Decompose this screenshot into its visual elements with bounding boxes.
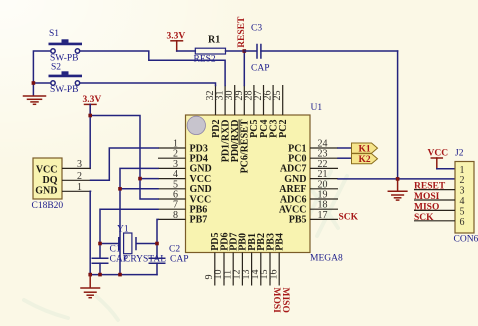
svg-text:MOSI: MOSI [271, 288, 281, 314]
svg-text:CAP: CAP [170, 255, 188, 265]
junction rail left [88, 273, 92, 277]
ground GND3 (near J2) [388, 179, 407, 200]
connector J2 CON6 [414, 149, 478, 245]
svg-text:PB4: PB4 [275, 233, 286, 251]
svg-text:C3: C3 [251, 24, 262, 34]
svg-text:MISO: MISO [280, 288, 290, 313]
svg-text:PB7: PB7 [190, 215, 208, 226]
svg-text:GND: GND [35, 185, 57, 196]
U1 top pins 32-25 stubs [216, 85, 283, 115]
svg-text:17: 17 [318, 210, 328, 221]
U1 bottom pin names [210, 232, 285, 250]
wire GND net pins 3,5 down to rail [120, 168, 158, 274]
svg-text:C1: C1 [110, 245, 121, 255]
junction RESET node [243, 49, 247, 53]
svg-text:RESET: RESET [237, 16, 247, 48]
svg-text:1: 1 [77, 182, 82, 193]
switch S1 SW-PB [49, 29, 83, 64]
svg-text:2: 2 [77, 171, 82, 182]
svg-text:SCK: SCK [414, 213, 434, 223]
U1 bottom pins 9-16 stubs [215, 253, 279, 286]
U1 right pin numbers 24-17 [318, 139, 328, 221]
junction rail GND column [118, 273, 122, 277]
svg-text:DQ: DQ [43, 175, 58, 186]
svg-text:VCC: VCC [428, 149, 449, 159]
crystal Y1 [117, 225, 166, 265]
connector C18B20 [32, 158, 91, 211]
svg-text:SCK: SCK [339, 213, 359, 223]
svg-text:6: 6 [460, 217, 465, 228]
junction S2 left [32, 81, 36, 85]
svg-text:MISO: MISO [414, 202, 439, 212]
svg-text:RESET: RESET [414, 182, 446, 192]
svg-text:S1: S1 [49, 29, 59, 39]
svg-text:3: 3 [460, 186, 465, 197]
capacitor C3 CAP [244, 24, 397, 74]
wire ground rail (crystal) [90, 274, 157, 276]
svg-text:C2: C2 [169, 245, 180, 255]
svg-text:CAP: CAP [110, 255, 128, 265]
svg-text:R1: R1 [208, 35, 220, 46]
wire GND pin21 to J2 pin2 [338, 178, 455, 180]
svg-text:Y1: Y1 [117, 225, 129, 235]
junction rail C1 [98, 273, 102, 277]
svg-text:4: 4 [460, 196, 465, 207]
IC U1 MEGA8 body [186, 115, 311, 253]
svg-text:SW-PB: SW-PB [50, 85, 79, 95]
svg-text:K1: K1 [359, 144, 371, 154]
U1 bottom pin numbers 9-16 [204, 270, 279, 280]
wire 3.3V rail right and down to pins 4 and 6 [90, 116, 158, 200]
junction crystal right [155, 242, 159, 246]
svg-text:3.3V: 3.3V [167, 32, 186, 42]
svg-text:8: 8 [173, 210, 178, 221]
power VCC (at J2) [428, 149, 449, 169]
wire pin7 PB6 to crystal left [100, 209, 158, 258]
svg-text:K2: K2 [359, 155, 371, 165]
capacitor C2 CAP [149, 245, 189, 275]
svg-text:25: 25 [272, 91, 283, 101]
svg-text:PC2: PC2 [278, 120, 289, 138]
svg-text:MEGA8: MEGA8 [310, 254, 343, 264]
svg-text:3: 3 [77, 159, 82, 170]
resistor R1 RES2 [177, 35, 245, 65]
svg-text:RES2: RES2 [194, 55, 216, 65]
wire C3 to GND net (right vertical) [397, 51, 399, 179]
svg-text:PB5: PB5 [289, 215, 307, 226]
svg-text:2: 2 [460, 175, 465, 186]
wire S2 right to pin 32 [80, 83, 216, 86]
junction crystal left [98, 242, 102, 246]
wire C18B20 GND down to rail [89, 191, 91, 274]
U1 top pin names [211, 119, 289, 173]
svg-text:MOSI: MOSI [414, 192, 440, 202]
capacitor C1 CAP [92, 245, 128, 275]
junction VCC pin4 [138, 177, 142, 181]
svg-text:16: 16 [268, 270, 279, 280]
svg-text:J2: J2 [455, 149, 464, 159]
ground GND1 (switches) [24, 96, 46, 104]
U1 left pins 1-8 stubs [158, 148, 186, 219]
wire pin8 PB7 to crystal right [137, 219, 159, 258]
wire 3.3V rail down to C18B20 VCC [89, 104, 91, 168]
switch S2 SW-PB [49, 63, 83, 96]
svg-text:CAP: CAP [251, 64, 269, 74]
svg-text:5: 5 [460, 206, 465, 217]
junction GND net at ground [396, 177, 400, 181]
power 3.3V (middle left) [83, 95, 102, 116]
svg-text:U1: U1 [311, 103, 323, 113]
U1 right pins 24-17 stubs [310, 148, 338, 219]
svg-text:CON6: CON6 [454, 235, 478, 245]
port K2 [338, 154, 378, 165]
wire S1 left to S2 left and ground [33, 51, 50, 95]
junction 3.3V stem [88, 114, 92, 118]
svg-text:1: 1 [460, 165, 465, 176]
wire DQ to pin 1 PD3 [91, 148, 159, 180]
U1 right pin names [279, 143, 307, 225]
junction GND pin5 [118, 187, 122, 191]
power 3.3V (top, at R1) [167, 32, 186, 52]
U1 top pin numbers 32-25 [205, 91, 283, 101]
U1 left pin names [190, 143, 212, 225]
ground GND2 (crystal) [81, 275, 100, 298]
port K1 [338, 143, 378, 154]
wire RESET junction down to pin 29 [243, 51, 245, 86]
wire S1 right to R1 row then to pin 31 [80, 51, 225, 86]
svg-text:VCC: VCC [36, 165, 58, 176]
U1 left pin numbers 1-8 [173, 139, 178, 221]
svg-text:3.3V: 3.3V [83, 95, 102, 105]
svg-text:S2: S2 [51, 63, 61, 73]
svg-text:C18B20: C18B20 [32, 201, 64, 211]
wire VCC to J2 pin1 [437, 168, 455, 170]
